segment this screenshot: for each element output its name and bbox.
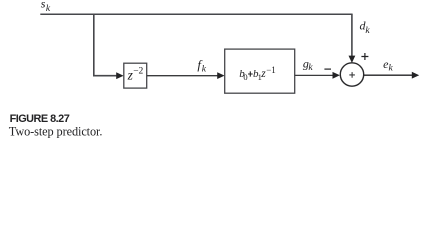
svg-text:Two-step predictor.: Two-step predictor. — [9, 125, 103, 138]
svg-text:−1: −1 — [266, 65, 276, 75]
plus sign inside summer — [349, 72, 355, 78]
arrowhead into b0+b1z^-1 box — [217, 72, 224, 79]
block b0+b1z^-1 (predictor filter) — [225, 49, 295, 93]
wire: z^-2 to b0+b1z^-1 block — [147, 75, 218, 77]
minus sign at summer input — [324, 68, 331, 70]
arrowhead into z^-2 box — [116, 72, 123, 79]
svg-text:FIGURE 8.27: FIGURE 8.27 — [10, 113, 70, 125]
summing junction — [340, 63, 363, 86]
plus sign at dk summer input — [361, 53, 368, 60]
svg-text:−2: −2 — [133, 67, 143, 77]
arrowhead into summer (top) — [349, 56, 356, 63]
wire: top horizontal from sk to dk branch — [40, 13, 352, 15]
wire: left vertical branch down to z^-2 row — [94, 14, 117, 76]
wire: summer output ek — [364, 74, 413, 76]
svg-text:0: 0 — [243, 72, 247, 82]
wire: filter output to summer — [295, 74, 333, 76]
block z^-2 (delay) — [124, 63, 147, 88]
wire: dk vertical drop into summer — [351, 14, 353, 56]
arrowhead into summer (left) — [333, 72, 340, 79]
arrowhead output — [412, 72, 419, 79]
